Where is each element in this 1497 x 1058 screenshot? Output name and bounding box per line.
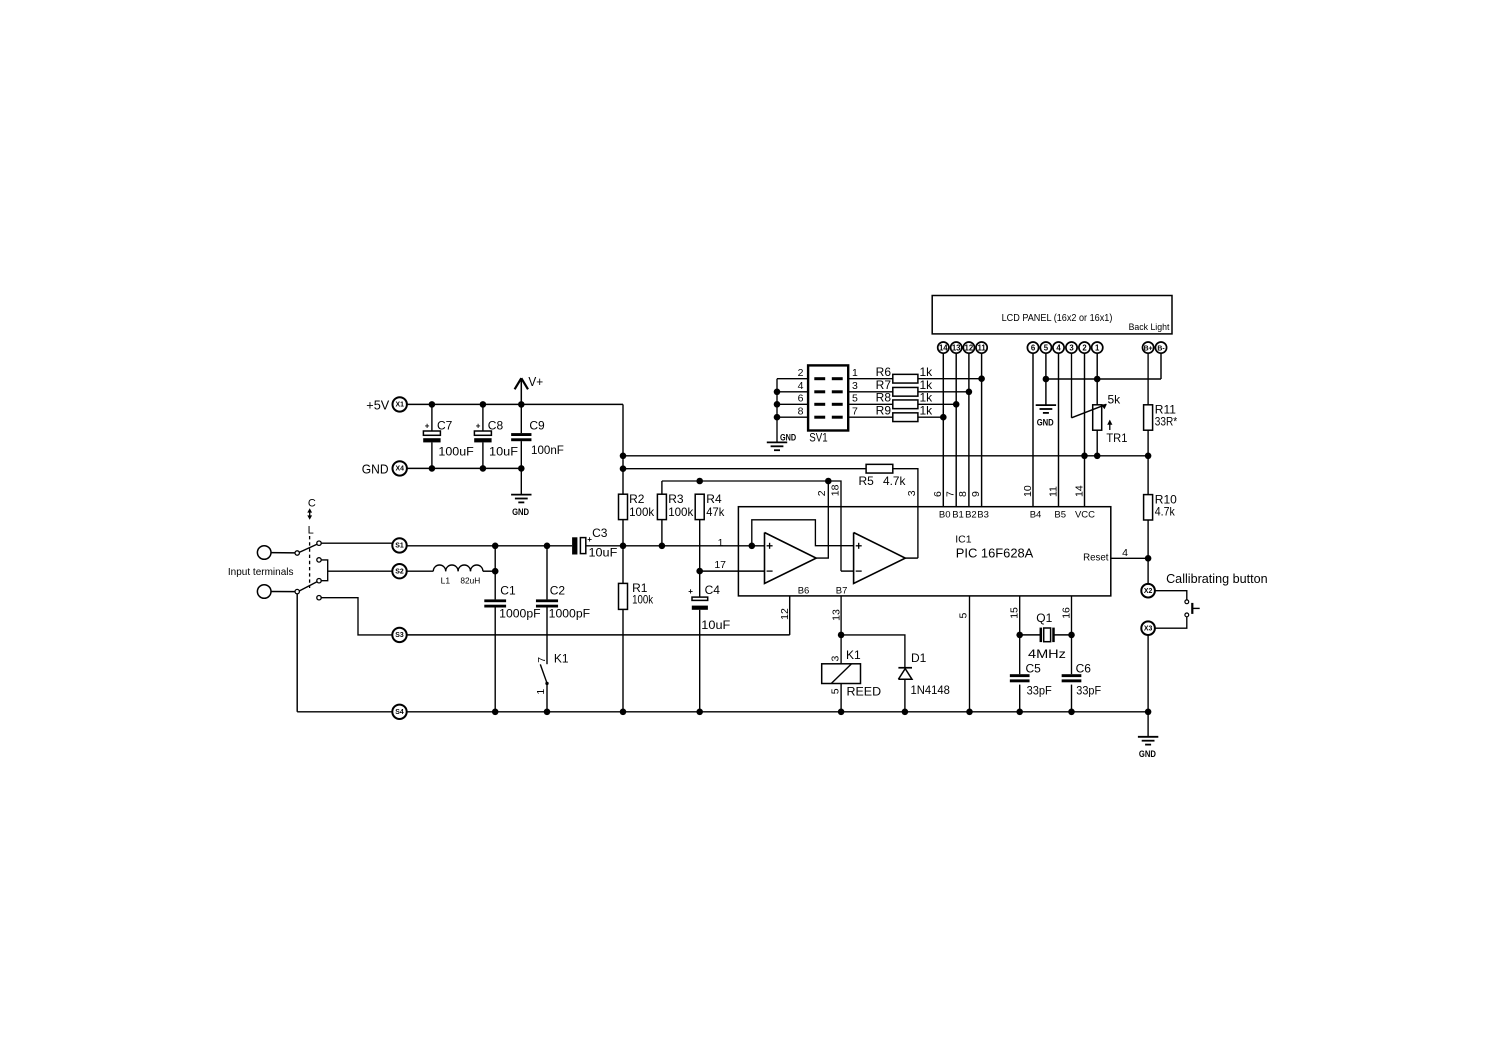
- svg-text:Q1: Q1: [1036, 611, 1052, 625]
- junction C8 bottom: [480, 465, 487, 472]
- svg-text:4: 4: [1122, 547, 1128, 559]
- pad S3: [392, 628, 406, 642]
- junction Reset/R10: [1145, 555, 1152, 562]
- pad S2: [392, 564, 406, 578]
- ground (bottom): [1138, 737, 1158, 760]
- junction R3 bottom: [659, 543, 666, 550]
- svg-text:B1: B1: [952, 509, 964, 520]
- svg-text:6: 6: [798, 393, 804, 405]
- svg-text:14: 14: [939, 343, 948, 352]
- wire R9 to column: [918, 416, 943, 418]
- svg-text:1: 1: [852, 367, 858, 379]
- junction SV1-6 gnd: [774, 401, 781, 408]
- svg-text:+5V: +5V: [366, 398, 389, 413]
- junction R8/col13: [953, 401, 960, 408]
- LCD pin 11: [976, 342, 987, 353]
- junction Q1 left: [1016, 632, 1023, 639]
- svg-text:1k: 1k: [920, 365, 934, 379]
- wire gnd stub: [520, 468, 522, 494]
- svg-text:3: 3: [829, 656, 841, 662]
- svg-text:1000pF: 1000pF: [499, 607, 540, 621]
- ground (power): [511, 495, 531, 518]
- pad X3: [1141, 621, 1155, 635]
- junction R4 top: [696, 478, 703, 485]
- svg-text:7: 7: [536, 657, 548, 663]
- crystal Q1 4MHz: [1020, 611, 1072, 661]
- svg-text:4.7k: 4.7k: [883, 474, 906, 488]
- svg-text:8: 8: [957, 491, 969, 497]
- wire LCD1 down: [1096, 353, 1098, 405]
- svg-text:R3: R3: [668, 492, 684, 506]
- svg-text:15: 15: [1009, 607, 1021, 619]
- svg-text:B7: B7: [836, 586, 848, 597]
- svg-text:100k: 100k: [668, 505, 694, 519]
- LCD pin 14: [938, 342, 949, 353]
- resistor R1: [619, 581, 654, 610]
- junction V+ / C9: [518, 401, 525, 408]
- svg-text:D1: D1: [911, 651, 927, 665]
- wire R5 to pin3: [893, 469, 918, 558]
- svg-text:10: 10: [1022, 485, 1034, 497]
- wire LCD5 down: [1045, 353, 1047, 405]
- wire R3R4 top: [662, 481, 841, 571]
- svg-text:100uF: 100uF: [438, 444, 473, 458]
- wire LCD11 to IC pin9: [981, 353, 983, 507]
- ground (SV1): [767, 433, 796, 451]
- svg-text:13: 13: [952, 343, 961, 352]
- svg-text:SV1: SV1: [809, 430, 828, 444]
- LCD pin 5: [1040, 342, 1051, 353]
- wire pin17 into IC: [700, 570, 765, 572]
- junction bottom rail: [1016, 709, 1023, 716]
- svg-text:33pF: 33pF: [1076, 684, 1101, 698]
- svg-text:47k: 47k: [706, 505, 725, 519]
- junction bottom rail: [492, 709, 499, 716]
- switch pole1 common contact: [295, 551, 299, 555]
- wire IC pin5 gnd: [969, 596, 971, 712]
- svg-text:4: 4: [798, 380, 804, 392]
- svg-text:3: 3: [906, 490, 918, 496]
- switch contact S1-side: [317, 541, 321, 545]
- IC1 box: [738, 507, 1110, 596]
- switch pole2 arm: [299, 582, 317, 591]
- svg-text:10uF: 10uF: [489, 444, 518, 458]
- svg-text:L: L: [308, 525, 314, 537]
- switch contact S3-side: [317, 596, 321, 600]
- push button (calibrate): [1185, 600, 1200, 617]
- wire bracket to S2: [328, 570, 393, 572]
- wire terminal2 to switch: [271, 591, 295, 593]
- svg-text:C9: C9: [529, 418, 545, 432]
- wire B7 down: [840, 596, 842, 664]
- LCD pin B+: [1143, 342, 1154, 353]
- junction C9 bottom / gnd stub: [518, 465, 525, 472]
- resistor R6: [876, 365, 934, 383]
- svg-text:C6: C6: [1076, 661, 1092, 675]
- svg-text:10uF: 10uF: [701, 618, 730, 632]
- wire comparator1 output: [816, 481, 828, 558]
- wire +5V row: [407, 403, 623, 405]
- svg-text:33pF: 33pF: [1027, 684, 1052, 698]
- svg-text:GND: GND: [362, 461, 389, 476]
- wire X3 down: [1147, 635, 1149, 712]
- svg-text:7: 7: [944, 491, 956, 497]
- junction bottom rail: [838, 709, 845, 716]
- capacitor C1: [484, 546, 540, 712]
- svg-text:C3: C3: [592, 526, 608, 540]
- wire R1 to rail: [622, 609, 624, 711]
- wire SV1 gnd column: [776, 379, 778, 443]
- junction B7/D1: [838, 632, 845, 639]
- svg-text:PIC 16F628A: PIC 16F628A: [956, 546, 1034, 561]
- svg-text:12: 12: [965, 343, 974, 352]
- wire LCD B- down: [1160, 353, 1162, 379]
- svg-text:Callibrating button: Callibrating button: [1166, 571, 1268, 586]
- wire GND row: [407, 467, 521, 469]
- svg-text:REED: REED: [847, 685, 882, 699]
- svg-text:14: 14: [1074, 485, 1086, 497]
- connector SV1: [777, 365, 893, 444]
- power symbol V+: [515, 374, 544, 405]
- svg-text:33R*: 33R*: [1155, 414, 1178, 428]
- junction L1/C1: [492, 568, 499, 575]
- svg-text:1: 1: [1095, 343, 1100, 352]
- svg-text:X1: X1: [395, 402, 404, 409]
- junction bottom rail: [1068, 709, 1075, 716]
- svg-text:V+: V+: [528, 374, 543, 389]
- svg-text:11: 11: [1048, 486, 1060, 497]
- junction C1 top: [492, 543, 499, 550]
- LCD pin 2: [1079, 342, 1090, 353]
- wire V+ rail2 to R5: [623, 468, 866, 470]
- junction V+ rail1: [620, 453, 627, 460]
- junction LCD5/gnd bus: [1043, 376, 1050, 383]
- svg-text:C1: C1: [500, 583, 516, 597]
- resistor R5: [859, 464, 907, 488]
- wire pin1 into IC: [623, 545, 765, 547]
- wire pin18 into IC: [841, 570, 854, 572]
- svg-text:82uH: 82uH: [460, 575, 480, 585]
- capacitor C5: [1010, 661, 1052, 711]
- switch pole1 arm: [299, 544, 317, 552]
- junction pin2 node: [825, 478, 832, 485]
- junction bottom rail: [544, 709, 551, 716]
- svg-text:6: 6: [932, 491, 944, 497]
- svg-text:GND: GND: [780, 433, 796, 444]
- resistor R7: [876, 378, 934, 396]
- svg-text:C5: C5: [1026, 661, 1042, 675]
- wire terminal1 to switch: [271, 552, 295, 554]
- svg-text:R8: R8: [876, 391, 892, 405]
- switch K1 (reed contact): [535, 608, 569, 712]
- svg-text:6: 6: [1031, 343, 1036, 352]
- capacitor C9: [511, 404, 564, 468]
- input terminal bottom circle: [257, 585, 271, 599]
- capacitor C8: [474, 404, 518, 468]
- capacitor C6: [1062, 661, 1101, 711]
- svg-text:Input terminals: Input terminals: [228, 566, 294, 578]
- svg-text:C4: C4: [705, 583, 721, 597]
- junction R7/col12: [966, 389, 973, 396]
- svg-text:S3: S3: [395, 632, 404, 639]
- junction bottom rail: [696, 709, 703, 716]
- junction R4/pin17 node: [696, 568, 703, 575]
- LCD pin 13: [951, 342, 962, 353]
- op-amp comparator 2: [854, 533, 906, 584]
- svg-text:GND: GND: [1037, 417, 1054, 428]
- svg-text:1k: 1k: [920, 391, 934, 405]
- wire gnd stub bottom: [1147, 712, 1149, 737]
- LCD panel box: [932, 296, 1172, 334]
- svg-text:5: 5: [958, 613, 970, 619]
- svg-text:2: 2: [816, 490, 828, 496]
- op-amp comparator 1: [765, 533, 817, 584]
- wire LCD4 to IC pin11 (B5): [1058, 353, 1060, 507]
- junction C7 top: [429, 401, 436, 408]
- svg-text:18: 18: [829, 484, 841, 496]
- svg-text:IC1: IC1: [955, 534, 972, 546]
- resistor R8: [876, 391, 934, 409]
- junction node1/R2: [620, 543, 627, 550]
- resistor R11: [1144, 353, 1178, 456]
- svg-text:4: 4: [1056, 343, 1061, 352]
- junction C2 top: [544, 543, 551, 550]
- wire B6 down: [789, 596, 791, 635]
- pad S4: [392, 705, 406, 719]
- wire X2 to button: [1155, 591, 1187, 600]
- capacitor C4: [688, 571, 730, 712]
- svg-text:X3: X3: [1144, 625, 1153, 632]
- svg-text:B2: B2: [965, 509, 977, 520]
- wire pole2 common down: [296, 594, 298, 712]
- pad X2: [1141, 584, 1155, 598]
- wire LCD12 to IC pin8: [968, 353, 970, 507]
- svg-text:B0: B0: [939, 509, 951, 520]
- wire bottom rail: [297, 711, 392, 713]
- svg-text:R5: R5: [859, 474, 875, 488]
- wire comparator1 feedback: [752, 520, 854, 546]
- svg-text:12: 12: [779, 608, 791, 620]
- svg-text:7: 7: [852, 405, 858, 417]
- svg-text:100k: 100k: [629, 505, 655, 519]
- svg-text:1000pF: 1000pF: [549, 607, 590, 621]
- wire pin15 down: [1019, 596, 1021, 674]
- svg-text:2: 2: [1082, 343, 1087, 352]
- svg-text:C8: C8: [488, 418, 504, 432]
- junction R11 bottom: [1145, 453, 1152, 460]
- LCD pin 3: [1066, 342, 1077, 353]
- switch contact bracket-top: [317, 558, 321, 562]
- wire R6 to column: [918, 378, 982, 380]
- svg-text:R2: R2: [629, 492, 645, 506]
- ground (LCD): [1036, 405, 1056, 428]
- wire R8 to column: [918, 403, 956, 405]
- svg-text:C2: C2: [550, 583, 566, 597]
- junction R6/col11: [978, 375, 985, 382]
- svg-text:TR1: TR1: [1106, 431, 1127, 445]
- svg-text:B6: B6: [798, 586, 810, 597]
- inductor L1: [433, 565, 483, 585]
- junction comparator + input: [749, 543, 756, 550]
- svg-text:3: 3: [1069, 343, 1074, 352]
- svg-text:VCC: VCC: [1075, 509, 1095, 520]
- svg-text:GND: GND: [1139, 749, 1156, 760]
- junction V+ rail2: [620, 465, 627, 472]
- junction VCC/V+ rail: [1081, 453, 1088, 460]
- svg-text:100k: 100k: [632, 593, 654, 607]
- wire bottom rail main: [407, 711, 1148, 713]
- svg-text:16: 16: [1060, 607, 1072, 619]
- wire S3 row: [407, 634, 790, 636]
- svg-text:S1: S1: [395, 543, 404, 550]
- resistor R3: [657, 481, 694, 546]
- svg-text:1N4148: 1N4148: [911, 683, 951, 697]
- resistor R9: [876, 403, 934, 421]
- resistor R4: [695, 492, 725, 571]
- svg-text:X2: X2: [1144, 588, 1153, 595]
- input terminal top circle: [257, 546, 271, 560]
- wire S1 row left: [407, 545, 572, 547]
- svg-text:C: C: [308, 498, 316, 510]
- capacitor C2: [536, 546, 590, 621]
- svg-text:B5: B5: [1054, 509, 1066, 520]
- svg-text:+: +: [688, 587, 693, 596]
- diode D1 1N4148: [898, 651, 950, 712]
- wire R7 to column: [918, 391, 969, 393]
- pad X1 (+5V input): [393, 397, 407, 411]
- junction C8 top: [480, 401, 487, 408]
- LCD pin B-: [1155, 342, 1166, 353]
- svg-text:B-: B-: [1157, 345, 1165, 352]
- LCD pin 4: [1053, 342, 1064, 353]
- svg-text:Reset: Reset: [1083, 551, 1108, 563]
- svg-text:X4: X4: [395, 466, 404, 473]
- svg-text:R6: R6: [876, 365, 892, 379]
- svg-text:B4: B4: [1030, 509, 1042, 520]
- pad S1: [392, 538, 406, 552]
- svg-text:L1: L1: [441, 575, 451, 585]
- svg-text:+: +: [476, 422, 481, 431]
- wire switch to S1: [321, 542, 392, 544]
- LCD pin 12: [963, 342, 974, 353]
- junction LCD1/gnd bus: [1094, 376, 1101, 383]
- relay coil K1 REED: [822, 648, 882, 712]
- svg-text:+: +: [425, 422, 430, 431]
- wire pin16 down: [1071, 596, 1073, 674]
- svg-text:4.7k: 4.7k: [1155, 504, 1176, 518]
- wire L1 to C1: [483, 570, 495, 572]
- svg-text:K1: K1: [554, 652, 569, 666]
- wire LCD14 to IC pin6: [942, 353, 944, 507]
- svg-text:5: 5: [852, 393, 858, 405]
- junction TR1 bottom: [1094, 453, 1101, 460]
- svg-text:10uF: 10uF: [589, 545, 618, 559]
- capacitor C3: [572, 526, 617, 559]
- svg-text:5: 5: [829, 688, 841, 694]
- wire LCD6 to IC pin10 (B4): [1032, 353, 1034, 507]
- junction Q1 right: [1068, 632, 1075, 639]
- resistor R2: [619, 492, 656, 520]
- LCD pin 6: [1027, 342, 1038, 353]
- svg-text:5: 5: [1044, 343, 1049, 352]
- junction bottom rail: [966, 709, 973, 716]
- switch contact bracket-bottom: [317, 579, 321, 583]
- svg-text:17: 17: [714, 559, 726, 571]
- svg-text:11: 11: [977, 343, 986, 352]
- svg-text:1: 1: [535, 689, 547, 695]
- svg-text:C7: C7: [437, 418, 453, 432]
- wire R2 to node1: [622, 520, 624, 584]
- wire comparator2 output: [905, 557, 918, 559]
- svg-text:Back Light: Back Light: [1129, 322, 1170, 333]
- junction C7 bottom: [429, 465, 436, 472]
- wire bracket: [321, 560, 328, 581]
- svg-text:GND: GND: [512, 507, 529, 518]
- capacitor C7: [423, 404, 474, 468]
- svg-text:1: 1: [718, 537, 724, 549]
- pad X4 (GND input): [393, 461, 407, 475]
- wire LCD gnd bus: [1046, 378, 1161, 380]
- switch pole2 common contact: [295, 589, 299, 593]
- svg-text:3: 3: [852, 380, 858, 392]
- svg-text:1k: 1k: [920, 403, 934, 417]
- wire C3 to node: [586, 545, 623, 547]
- wire LCD2 to IC pin14 (VCC): [1084, 353, 1086, 507]
- dashed switch link: [309, 536, 311, 588]
- svg-text:K1: K1: [846, 648, 861, 662]
- wire button to X3: [1155, 617, 1187, 628]
- wire S2 to L1: [407, 570, 433, 572]
- wire LCD13 to IC pin7: [955, 353, 957, 507]
- resistor R10: [1144, 456, 1178, 584]
- wire +5V down: [622, 404, 624, 494]
- wire B7 to D1: [841, 635, 905, 667]
- junction R9/col14: [940, 414, 947, 421]
- svg-text:R4: R4: [706, 492, 722, 506]
- svg-text:8: 8: [798, 405, 804, 417]
- LCD pin 1: [1092, 342, 1103, 353]
- junction bottom rail: [620, 709, 627, 716]
- junction bottom rail: [1145, 709, 1152, 716]
- junction SV1-8 gnd: [774, 414, 781, 421]
- selector arrow: [307, 508, 312, 520]
- junction SV1-4 gnd: [774, 389, 781, 396]
- svg-text:S2: S2: [395, 568, 404, 575]
- svg-text:S4: S4: [395, 709, 404, 716]
- svg-text:5k: 5k: [1108, 392, 1122, 406]
- svg-text:100nF: 100nF: [531, 443, 564, 457]
- svg-text:13: 13: [831, 609, 843, 621]
- svg-text:R9: R9: [876, 403, 892, 417]
- wire V+ rail1: [623, 455, 1148, 457]
- wire switch to S3: [321, 598, 392, 635]
- junction bottom rail: [902, 709, 909, 716]
- trimmer TR1: [1072, 353, 1128, 456]
- svg-text:B+: B+: [1144, 345, 1153, 352]
- svg-text:9: 9: [970, 491, 982, 497]
- wire Reset: [1111, 557, 1148, 559]
- svg-text:2: 2: [798, 367, 804, 379]
- svg-text:4MHz: 4MHz: [1028, 647, 1066, 661]
- svg-text:LCD PANEL (16x2 or 16x1): LCD PANEL (16x2 or 16x1): [1002, 312, 1113, 324]
- svg-text:B3: B3: [977, 509, 989, 520]
